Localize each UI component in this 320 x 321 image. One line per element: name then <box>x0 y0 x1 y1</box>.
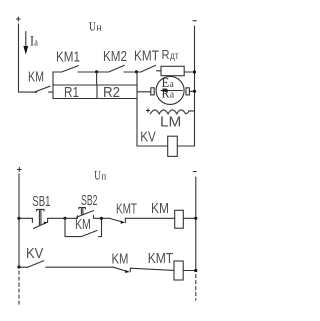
motor armature M circle <box>156 76 184 104</box>
node minus bottom <box>193 171 196 173</box>
contact KV (voltage relay) <box>19 246 114 267</box>
contact KM1 <box>56 50 97 73</box>
node plus field <box>146 109 149 112</box>
svg-text:KM: KM <box>151 201 169 217</box>
svg-text:SB1: SB1 <box>32 194 50 210</box>
label Uп <box>94 169 106 183</box>
wire right supply rail (top section) <box>194 26 196 146</box>
button SB2 (start, NO) <box>65 193 102 219</box>
label Ia <box>30 34 38 50</box>
node junction rail-rung2 right <box>194 269 197 272</box>
inductor LM field winding <box>150 110 193 114</box>
contactor coil KMT <box>148 251 196 280</box>
label LM <box>160 115 181 131</box>
node junction B (armature feed node) <box>135 70 138 73</box>
svg-text:R2: R2 <box>103 85 120 101</box>
label KM <box>28 70 44 86</box>
motor brush right <box>186 88 189 95</box>
node junction rail-rung1 left <box>17 217 20 220</box>
contactor main contact KM <box>34 86 53 92</box>
relay coil KV <box>137 129 195 156</box>
wire left rail (control section) <box>18 174 20 267</box>
svg-text:п: п <box>102 171 107 183</box>
node junction A (KM1/KM2 tap) <box>95 70 98 85</box>
svg-text:н: н <box>97 22 102 34</box>
svg-text:R: R <box>162 47 170 62</box>
current arrow Ia <box>23 32 28 55</box>
svg-text:KMT: KMT <box>134 48 159 64</box>
node plus bottom <box>17 168 21 172</box>
svg-text:U: U <box>94 169 101 183</box>
svg-text:SB2: SB2 <box>81 193 98 209</box>
svg-text:LM: LM <box>160 115 181 131</box>
node plus top <box>16 17 20 21</box>
label Ra <box>162 86 175 101</box>
wire left rail dashed stub <box>18 271 20 306</box>
button SB1 (stop, NC) <box>19 194 65 229</box>
svg-text:R: R <box>162 86 170 101</box>
svg-text:дт: дт <box>170 51 179 62</box>
node minus top <box>193 20 196 22</box>
armature EMF arrow <box>160 89 183 93</box>
svg-text:KM: KM <box>112 252 129 268</box>
svg-text:KM2: KM2 <box>103 49 127 65</box>
node junction SB2 branch left <box>63 217 66 220</box>
contact KM NC rung2 <box>112 252 175 274</box>
wire node B down to KV coil <box>136 72 138 146</box>
svg-text:U: U <box>89 20 96 34</box>
node junction rail-rung2 left <box>17 265 20 268</box>
contact KMT NC (interlock) <box>102 202 175 224</box>
wire right rail dashed stub <box>195 275 197 301</box>
svg-text:a: a <box>34 37 38 49</box>
wire armature feed <box>137 91 151 93</box>
svg-text:R1: R1 <box>64 85 79 101</box>
contact KM self-hold (parallel with SB2) <box>65 217 102 237</box>
svg-text:KV: KV <box>26 246 44 262</box>
contact KM2 <box>97 49 137 72</box>
svg-text:KV: KV <box>140 129 156 145</box>
label Ea <box>162 75 174 90</box>
resistor Rдт <box>161 47 195 76</box>
resistor R1 <box>53 85 97 101</box>
svg-text:KM: KM <box>75 217 91 233</box>
label Uн <box>89 20 102 34</box>
svg-text:KMT: KMT <box>148 251 174 267</box>
contactor coil KM <box>151 201 196 228</box>
svg-text:KM1: KM1 <box>56 50 80 66</box>
wire motor to rail <box>189 90 194 92</box>
node junction SB2 branch right <box>100 217 103 220</box>
resistor R2 <box>97 85 137 101</box>
wire left node up to contact line <box>53 72 62 85</box>
node junction rail-rung1 right <box>194 217 197 220</box>
svg-text:KMT: KMT <box>116 202 137 218</box>
contact KMT (braking) <box>134 48 161 72</box>
wire left supply rail (top section) <box>19 24 37 92</box>
svg-text:KM: KM <box>28 70 44 86</box>
motor brush left <box>151 88 154 95</box>
node junction Rдт-rail <box>193 70 196 73</box>
wire right rail (control section) <box>195 177 197 271</box>
node junction motor-rail <box>193 90 196 93</box>
